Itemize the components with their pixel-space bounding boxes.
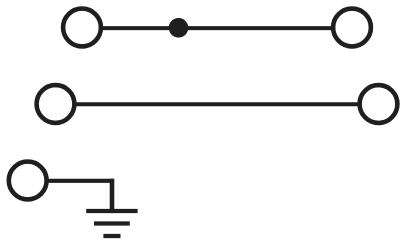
wire middle feed-through: [75, 102, 359, 106]
terminal circle 5 (bottom-left PE contact): [9, 162, 47, 200]
ground bar 1 (long): [86, 209, 137, 213]
ground bar 3 (short): [103, 234, 120, 238]
terminal circle 3 (middle-left contact): [37, 85, 75, 123]
junction dot (node): [169, 18, 189, 38]
terminal circle 1 (top-left contact): [63, 9, 101, 47]
ground bar 2 (medium): [94, 221, 130, 225]
wire top bridge: [102, 26, 332, 30]
wire PE horizontal: [47, 179, 114, 183]
terminal circle 2 (top-right contact): [333, 9, 371, 47]
terminal circle 4 (middle-right contact): [360, 85, 398, 123]
wire PE vertical drop: [110, 179, 115, 211]
